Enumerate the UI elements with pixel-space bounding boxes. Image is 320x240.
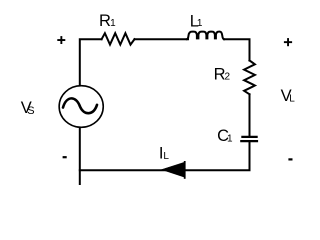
svg-text:1: 1 — [227, 133, 233, 144]
svg-text:L: L — [289, 93, 295, 104]
svg-text:2: 2 — [225, 72, 231, 83]
svg-text:L: L — [163, 151, 169, 162]
svg-text:1: 1 — [197, 18, 203, 29]
svg-text:S: S — [27, 105, 34, 117]
svg-text:1: 1 — [110, 18, 116, 29]
